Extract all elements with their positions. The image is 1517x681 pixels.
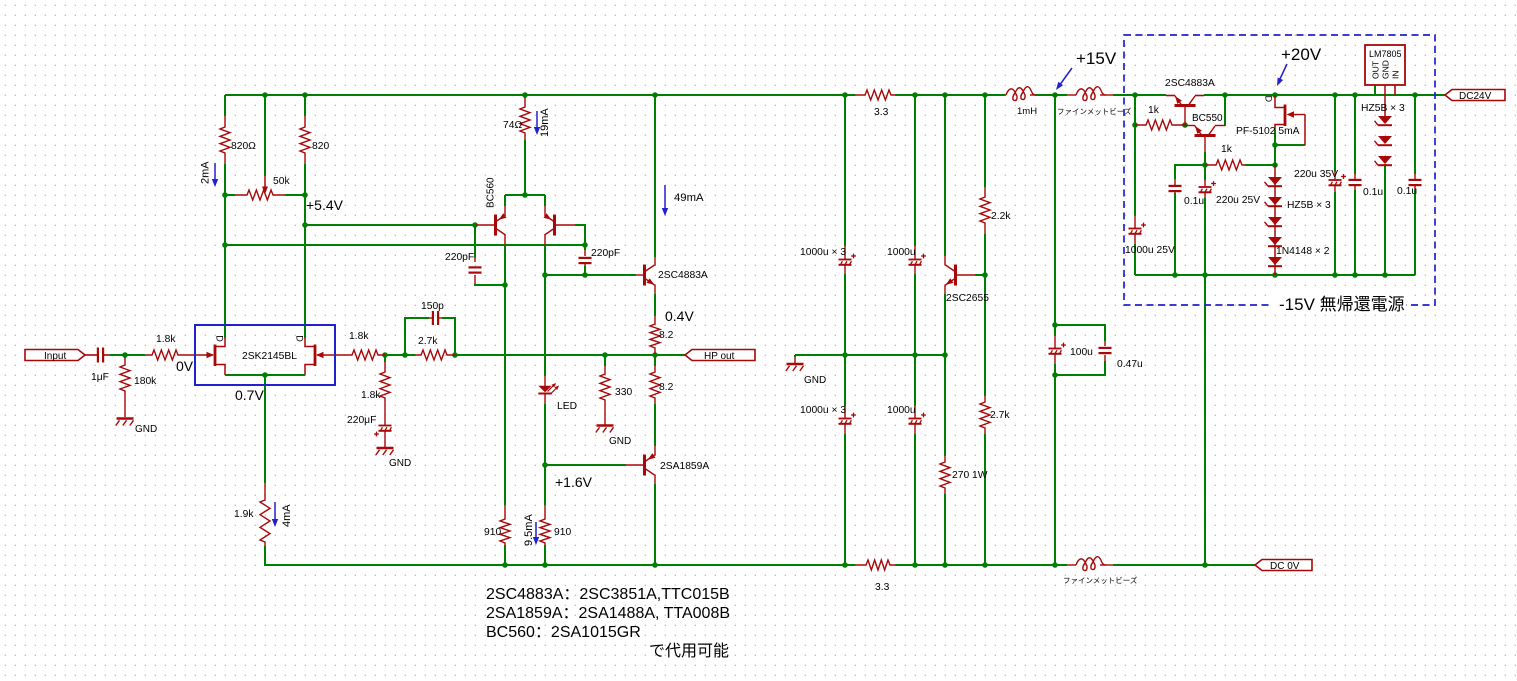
junction at (1185,125) (1182, 122, 1188, 128)
junction at (305,225) (302, 222, 308, 228)
ground input (116, 419, 157, 436)
svg-text:1000u: 1000u (887, 405, 916, 416)
wire 820ohm column x225 (224, 95, 226, 195)
wire left 220pF branch x475 (475, 225, 505, 285)
junction at (455,355) (452, 352, 458, 358)
junction at (1355,275) (1352, 272, 1358, 278)
capacitor 1000u x3 bottom (800, 405, 856, 434)
capacitor 0.1u right (1397, 174, 1422, 197)
capacitor 220u 35V (1294, 169, 1346, 192)
svg-text:2SA1859A: 2SA1859A (660, 461, 709, 472)
wire PF5102 source loop (1275, 130, 1305, 165)
svg-text:0.4V: 0.4V (665, 308, 694, 324)
current arrow 19mA (534, 108, 551, 137)
junction at (1275,145) (1272, 142, 1278, 148)
junction at (845,565) (842, 562, 848, 568)
dual JFET 2SK2145BL box (195, 325, 335, 385)
junction at (945,95) (942, 92, 948, 98)
svg-text:BC560: BC560 (486, 177, 497, 208)
resistor 180k (120, 358, 157, 398)
svg-text:D: D (1264, 96, 1274, 103)
wire top rail into PSU box (1113, 94, 1166, 96)
capacitor 100u (1049, 336, 1094, 364)
svg-text:9.5mA: 9.5mA (523, 514, 535, 546)
wire output emitter resistors x655 (654, 294, 656, 446)
svg-text:+5.4V: +5.4V (306, 197, 344, 213)
wire top rail DC24V section (1204, 94, 1445, 96)
resistor 820 (300, 116, 329, 164)
wire 1k2 to PF5102 source (1245, 164, 1275, 166)
label 0.7V (235, 387, 264, 403)
svg-text:0.1u: 0.1u (1184, 196, 1204, 207)
svg-text:0.1u: 0.1u (1397, 186, 1417, 197)
wire output collector x655 to rail (654, 95, 656, 257)
junction at (1275,275) (1272, 272, 1278, 278)
svg-text:1000u × 3: 1000u × 3 (800, 405, 846, 416)
wire output node y355 (455, 354, 685, 356)
svg-text:49mA: 49mA (674, 192, 704, 204)
capacitor 150p (421, 301, 444, 325)
junction at (225,245) (222, 242, 228, 248)
junction at (605,355) (602, 352, 608, 358)
svg-text:1.8k: 1.8k (156, 334, 176, 345)
svg-text:2.2k: 2.2k (991, 211, 1011, 222)
wire x225 down to FET drain (224, 195, 226, 338)
svg-text:1N4148 × 2: 1N4148 × 2 (1276, 246, 1330, 257)
svg-text:1000u: 1000u (887, 247, 916, 258)
resistor 8.2 lower (650, 366, 674, 404)
resistor 1.8k input (145, 334, 185, 360)
junction at (1135,95) (1132, 92, 1138, 98)
junction at (1275,165) (1272, 162, 1278, 168)
note line 3 (486, 624, 641, 641)
svg-text:50k: 50k (273, 176, 290, 187)
junction at (305,95) (302, 92, 308, 98)
junction at (265,375) (262, 372, 268, 378)
transistor 2SA1859A (PNP) (626, 446, 709, 484)
label 0V (176, 358, 194, 374)
junction at (525,195) (522, 192, 528, 198)
note line 4 (649, 642, 729, 660)
junction at (1135,125) (1132, 122, 1138, 128)
junction at (1415,95) (1412, 92, 1418, 98)
svg-text:D: D (295, 335, 305, 342)
wire 2SC2655 column x945 (944, 95, 946, 565)
junction at (1055,95) (1052, 92, 1058, 98)
IC LM7805 (1365, 45, 1405, 95)
junction at (845,355) (842, 352, 848, 358)
svg-text:LED: LED (557, 401, 577, 412)
wire feedback y245 (225, 244, 585, 246)
junction at (305,195) (302, 192, 308, 198)
svg-text:+20V: +20V (1281, 45, 1322, 64)
svg-text:HZ5B × 3: HZ5B × 3 (1287, 200, 1331, 211)
wire 2.2k column x985 (984, 95, 986, 565)
svg-text:HZ5B × 3: HZ5B × 3 (1361, 103, 1405, 114)
note line 1 (486, 586, 730, 603)
wire zener chain bottom x1385 (1384, 166, 1386, 275)
wire input node y355 (85, 354, 145, 356)
wire 820 column x305 (304, 95, 306, 195)
resistor 910 right (540, 505, 571, 545)
capacitor 220pF left (445, 252, 482, 284)
resistor 910 left (484, 505, 510, 545)
resistor 8.2 upper (650, 316, 674, 354)
wire driver base y275 (545, 274, 636, 276)
svg-text:HP out: HP out (704, 351, 735, 362)
svg-text:2SC4883A: 2SC4883A (658, 270, 708, 281)
svg-text:2SA1859A：2SA1488A, TTA008B: 2SA1859A：2SA1488A, TTA008B (486, 605, 730, 622)
junction at (405,355) (402, 352, 408, 358)
wire 74ohm column x525 (524, 95, 526, 195)
resistor 1k first (1135, 105, 1185, 130)
svg-text:GND: GND (135, 424, 157, 435)
transistor 2SC4883A psu (NPN rotated) (1165, 78, 1215, 125)
junction at (385,355) (382, 352, 388, 358)
wire 180k column x125 (124, 355, 126, 417)
LED (538, 376, 577, 412)
svg-text:BC550: BC550 (1192, 113, 1223, 124)
JFET right half 2SK2145BL (295, 335, 324, 375)
transistor 2SC2655 (NPN) (945, 256, 989, 304)
wire 220u35V branch x1335 (1334, 95, 1336, 275)
svg-text:0.47u: 0.47u (1117, 359, 1143, 370)
svg-text:0.1u: 0.1u (1363, 187, 1383, 198)
wire LM7805 OUT pin (1374, 85, 1376, 95)
capacitor 1μF (91, 348, 110, 384)
resistor 820Ω (220, 116, 256, 164)
svg-text:ファインメットビーズ: ファインメットビーズ (1063, 575, 1138, 585)
svg-text:1000u × 3: 1000u × 3 (800, 247, 846, 258)
capacitor 0.1u psu left (1169, 179, 1205, 207)
junction at (985,565) (982, 562, 988, 568)
capacitor 1000u top (887, 246, 926, 274)
junction at (505,565) (502, 562, 508, 568)
wire bottom rail mid (895, 564, 1067, 566)
JFET PF-5102 (1236, 95, 1305, 145)
transistor BC560 left (PNP) (476, 206, 507, 245)
svg-text:Input: Input (44, 351, 66, 362)
note line 2 (486, 605, 730, 622)
svg-text:LM7805: LM7805 (1369, 49, 1402, 59)
svg-text:3.3: 3.3 (874, 107, 889, 118)
capacitor 220pF right (579, 248, 621, 266)
junction at (1055,325) (1052, 322, 1058, 328)
svg-text:PF-5102 5mA: PF-5102 5mA (1236, 126, 1300, 137)
capacitor 220μF (347, 415, 392, 436)
capacitor 1000u x3 top (800, 246, 856, 274)
transistor BC550 (NPN rotated) (1185, 113, 1225, 152)
current arrow 4mA (272, 502, 293, 527)
junction at (585,275) (582, 272, 588, 278)
wire 1.9k to bottom rail (264, 546, 266, 565)
label 0.4V (665, 308, 694, 324)
wire BC550 collector x1225 (1224, 95, 1226, 126)
svg-text:OUT: OUT (1371, 61, 1381, 79)
junction at (525,95) (522, 92, 528, 98)
junction at (1355,95) (1352, 92, 1358, 98)
ground 330 (596, 404, 631, 447)
capacitor 0.1u mid (1349, 174, 1384, 198)
svg-text:150p: 150p (421, 301, 444, 312)
svg-text:180k: 180k (134, 376, 157, 387)
junction at (545,465) (542, 462, 548, 468)
svg-text:820Ω: 820Ω (231, 141, 256, 152)
resistor 2.2k (980, 187, 1011, 234)
wire GND spur y355 (795, 355, 945, 364)
svg-text:1mH: 1mH (1017, 106, 1037, 117)
resistor 3.3 bottom (855, 560, 895, 593)
annotation +15V (1056, 49, 1117, 90)
wire 2SA1859A collector to rail x655 (654, 484, 656, 565)
resistor 74Ω (503, 98, 530, 140)
junction at (1275,95) (1272, 92, 1278, 98)
resistor 1.8k feedback (361, 362, 390, 406)
ground 220μF (376, 448, 411, 469)
wire 0.1u branch x1355 (1354, 95, 1356, 275)
svg-text:2.7k: 2.7k (990, 410, 1010, 421)
junction at (655,95) (652, 92, 658, 98)
svg-text:+1.6V: +1.6V (555, 474, 593, 490)
svg-text:2mA: 2mA (200, 161, 212, 184)
wire PSU internal 0V rail (1135, 274, 1415, 276)
junction at (545,275) (542, 272, 548, 278)
resistor 3.3 top (855, 90, 895, 118)
wire 2SC2655 base (975, 274, 985, 276)
current arrow 9.5mA (523, 514, 539, 546)
resistor 1k second (1205, 144, 1245, 170)
svg-text:GND: GND (389, 458, 411, 469)
junction at (915,95) (912, 92, 918, 98)
svg-text:+15V: +15V (1076, 49, 1117, 68)
wire bias node to 2SA1859A base y465 (545, 464, 626, 466)
svg-text:8.2: 8.2 (659, 382, 674, 393)
junction at (265,95) (262, 92, 268, 98)
resistor 270 1W (940, 456, 988, 494)
wire x305 to +5.4V node and FET drain (304, 195, 306, 338)
junction at (1385,275) (1382, 272, 1388, 278)
wire cap column x915 (914, 95, 916, 565)
svg-text:DC 0V: DC 0V (1270, 561, 1300, 572)
svg-text:0V: 0V (176, 358, 194, 374)
wire bottom DC0V rail left (265, 546, 855, 565)
wire pot wiper feed x265 (264, 95, 266, 176)
svg-text:19mA: 19mA (539, 108, 551, 137)
wire top rail mid section (895, 94, 1005, 96)
junction at (505,285) (502, 282, 508, 288)
wire fb node y355 (385, 354, 415, 356)
junction at (655,355) (652, 352, 658, 358)
capacitor 220u 25V (1199, 180, 1261, 206)
wire 0.1u branch x1175 (1175, 165, 1205, 275)
junction at (475,225) (472, 222, 478, 228)
svg-text:1μF: 1μF (91, 372, 109, 383)
junction at (985,95) (982, 92, 988, 98)
junction at (945,355) (942, 352, 948, 358)
port Input (25, 350, 85, 363)
port HP out (685, 350, 755, 363)
label +1.6V (555, 474, 593, 490)
svg-text:GND: GND (609, 436, 631, 447)
svg-text:270 1W: 270 1W (952, 470, 988, 481)
svg-text:3.3: 3.3 (875, 582, 890, 593)
svg-text:2SC4883A: 2SC4883A (1165, 78, 1215, 89)
wire cap column x845 (844, 95, 846, 565)
junction at (655,565) (652, 562, 658, 568)
wire FET right gate to 1.8k (317, 354, 345, 356)
svg-text:で代用可能: で代用可能 (649, 642, 729, 660)
resistor 330 (600, 355, 632, 404)
junction at (125,355) (122, 352, 128, 358)
wire BC560 right collector x545 (544, 245, 546, 376)
wire FET sources y375 (225, 374, 305, 376)
wire 0.47u loop (1055, 325, 1105, 375)
junction at (1225,95) (1222, 92, 1228, 98)
svg-text:GND: GND (804, 375, 826, 386)
svg-text:4mA: 4mA (281, 504, 293, 527)
wire 910R to rail (544, 545, 546, 565)
wire BC550 base to 1k (1204, 152, 1206, 165)
svg-text:220pF: 220pF (445, 252, 474, 263)
junction at (1205,165) (1202, 162, 1208, 168)
wire input 1.8k to FET gate (185, 354, 213, 356)
junction at (1205,565) (1202, 562, 1208, 568)
resistor 2.7k feedback (415, 336, 455, 360)
resistor 2.7k psu (980, 396, 1010, 434)
junction at (845,95) (842, 92, 848, 98)
wire BC560 emitters y195 (505, 195, 545, 206)
junction at (1055,565) (1052, 562, 1058, 568)
junction at (945,565) (942, 562, 948, 568)
svg-text:1.8k: 1.8k (349, 331, 369, 342)
current arrow 49mA (662, 185, 704, 216)
wire BC560 left collector x505 (504, 245, 506, 505)
wire 150p loop (405, 318, 455, 355)
svg-text:1.8k: 1.8k (361, 390, 381, 401)
label +5.4V (306, 197, 344, 213)
junction at (225,195) (222, 192, 228, 198)
svg-text:1000u 25V: 1000u 25V (1125, 245, 1175, 256)
wire top rail at 1mH junction (1035, 94, 1067, 96)
zener chain HZ5B x3 + 1N4148 x2 (1265, 165, 1332, 275)
wire FET source tap x265 (264, 375, 266, 483)
svg-text:820: 820 (312, 141, 329, 152)
junction at (915,355) (912, 352, 918, 358)
inductor finemet beads bottom (1063, 557, 1138, 585)
svg-text:910: 910 (554, 527, 571, 538)
junction at (585,245) (582, 242, 588, 248)
svg-text:74Ω: 74Ω (503, 120, 522, 131)
capacitor 1000u 25V (1125, 216, 1175, 256)
svg-text:D: D (215, 335, 225, 342)
svg-text:220u 25V: 220u 25V (1216, 195, 1260, 206)
wire fb divider x385 (384, 355, 386, 447)
wire +5.4V node to BC560 base y225 (305, 224, 476, 226)
svg-text:100u: 100u (1070, 347, 1093, 358)
svg-text:220pF: 220pF (591, 248, 620, 259)
svg-text:IN: IN (1391, 71, 1401, 80)
svg-text:GND: GND (1381, 60, 1391, 79)
junction at (1205,275) (1202, 272, 1208, 278)
port DC24V (1445, 90, 1505, 103)
wire bottom rail right to port (1113, 564, 1255, 566)
svg-text:BC560：2SA1015GR: BC560：2SA1015GR (486, 624, 641, 641)
svg-text:2.7k: 2.7k (418, 336, 438, 347)
current arrow 2mA (200, 161, 219, 187)
zener chain HZ5B x3 right (1361, 85, 1405, 166)
svg-text:1.9k: 1.9k (234, 509, 254, 520)
resistor 1.9k (234, 483, 270, 546)
junction at (545,565) (542, 562, 548, 568)
svg-text:0.7V: 0.7V (235, 387, 264, 403)
wire PSU -15V output x1205 (1204, 275, 1206, 565)
wire top +15V rail left section (225, 94, 855, 96)
ground rail (786, 364, 826, 386)
potentiometer 50k (235, 176, 290, 200)
svg-text:1k: 1k (1148, 105, 1160, 116)
svg-text:1k: 1k (1221, 144, 1233, 155)
svg-text:-15V 無帰還電源: -15V 無帰還電源 (1279, 295, 1405, 314)
transistor BC560 right (PNP) (544, 206, 576, 245)
svg-text:910: 910 (484, 527, 501, 538)
junction at (1335,95) (1332, 92, 1338, 98)
wire LED to bias node x545 (544, 404, 546, 505)
wire 220u25V branch x1205 (1204, 165, 1206, 275)
wire right 220pF branch x585 (575, 225, 585, 250)
svg-text:DC24V: DC24V (1459, 91, 1492, 102)
wire x1055 column (1054, 95, 1056, 565)
capacitor 0.47u (1099, 341, 1144, 370)
wire 0.1u branch x1415 (1414, 95, 1416, 275)
transistor 2SC4883A output (NPN) (636, 257, 708, 294)
wire 910L to rail (504, 545, 506, 565)
junction at (985,275) (982, 272, 988, 278)
junction at (1175,275) (1172, 272, 1178, 278)
junction at (1335,275) (1332, 272, 1338, 278)
wire PSU output x1135 (1134, 95, 1136, 275)
svg-text:330: 330 (615, 387, 632, 398)
svg-text:ファインメットビーズ: ファインメットビーズ (1057, 106, 1132, 116)
junction at (915,565) (912, 562, 918, 568)
capacitor 1000u bottom (887, 405, 926, 434)
PSU dashed box (1124, 35, 1435, 312)
junction at (1055,375) (1052, 372, 1058, 378)
svg-text:220μF: 220μF (347, 415, 376, 426)
resistor 1.8k right gate (345, 331, 385, 360)
port DC 0V (1255, 560, 1312, 573)
svg-text:2SC2655: 2SC2655 (946, 293, 989, 304)
wire pot ends y195 (225, 194, 305, 196)
svg-text:2SK2145BL: 2SK2145BL (242, 351, 297, 362)
annotation +20V (1277, 45, 1322, 86)
JFET left half 2SK2145BL (207, 335, 226, 375)
svg-text:2SC4883A：2SC3851A,TTC015B: 2SC4883A：2SC3851A,TTC015B (486, 586, 730, 603)
inductor 1mH (1005, 87, 1037, 117)
label -15V PSU title (1279, 295, 1405, 314)
svg-text:8.2: 8.2 (659, 330, 674, 341)
svg-text:220u 35V: 220u 35V (1294, 169, 1338, 180)
label BC560 (486, 177, 497, 208)
wire 220pF to y275 (584, 266, 586, 275)
inductor finemet beads top (1057, 87, 1132, 116)
